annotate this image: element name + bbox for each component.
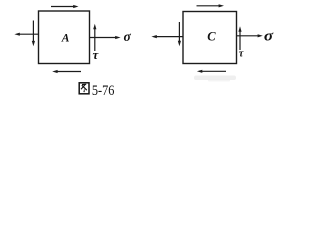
faint bleed-through smudge	[194, 76, 236, 82]
element C right face shear arrow (up)	[238, 26, 241, 50]
element A left normal-stress arrow (left)	[14, 33, 38, 36]
element C left face shear arrow (down)	[178, 22, 181, 46]
svg-text:σ: σ	[264, 29, 274, 45]
svg-text:σ: σ	[124, 29, 132, 44]
element C top shear arrow (right)	[197, 4, 225, 7]
svg-text:A: A	[61, 33, 70, 45]
element A top shear arrow (right)	[51, 5, 79, 8]
element C left normal-stress arrow (left)	[151, 35, 183, 38]
svg-text:5-76: 5-76	[92, 82, 115, 98]
svg-text:C: C	[207, 30, 216, 44]
stress element A square	[39, 11, 90, 64]
element A right face shear arrow (up)	[93, 24, 96, 51]
stress element C square	[183, 12, 237, 64]
svg-text:τ: τ	[239, 48, 244, 59]
element A left face shear arrow (down)	[32, 21, 35, 47]
caption hanzi TU (drawn glyph)	[79, 83, 89, 94]
element C bottom shear arrow (left)	[197, 70, 226, 73]
element C right normal-stress arrow sigma	[237, 34, 263, 37]
element A bottom shear arrow (left)	[52, 70, 81, 73]
element A right normal-stress arrow sigma	[90, 36, 121, 39]
